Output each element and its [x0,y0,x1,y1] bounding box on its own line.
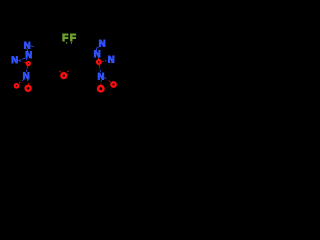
bond Ne'-Of' [105,78,106,79]
oxygen Of' right [111,82,115,86]
bond Od-Nc [25,62,27,64]
oxygen Od' right [97,60,101,64]
bond F1-apex (green half) [65,42,68,44]
oxygen Od left [27,62,30,65]
bond M-Na [39,49,47,52]
bond Od'-Nc' [102,60,103,62]
svg-text:N: N [23,71,30,82]
svg-text:N: N [25,50,32,61]
bond Na-Nb [27,49,28,52]
bond M'-Na' [93,49,96,51]
bond Ne-Of [23,79,24,82]
bond Oc-R2 [67,70,70,73]
svg-text:F: F [62,33,68,44]
bond Na'-Nb' [95,48,97,51]
bond Od-Ne [25,67,28,70]
bond Nb-Od [25,59,28,61]
bond Nb-Nc [23,57,25,60]
bond apex-L1 [60,51,70,58]
svg-text:N: N [99,39,106,50]
oxygen Oc central [61,73,66,78]
svg-text:N: N [98,72,105,83]
svg-text:F: F [70,33,76,44]
bond Ne-Og [27,80,29,81]
bond L1-L2 [55,58,60,66]
bond L2-Oc [55,66,59,71]
bond F2-apex (green half) [70,42,73,44]
bond R1-M' [79,52,93,58]
bond Od'-Ne' [98,67,101,70]
svg-text:N: N [11,55,18,66]
bond R2-R1 [74,58,79,66]
svg-text:N: N [94,49,101,60]
bond Ne'-Og' [100,81,102,82]
oxygen Og left [26,86,31,91]
bond L1-M [46,52,60,58]
bond Nb'-Od' [98,57,100,60]
bond R1-apex [70,51,79,58]
oxygen Of left [15,84,19,88]
oxygen Og' right [98,86,103,91]
